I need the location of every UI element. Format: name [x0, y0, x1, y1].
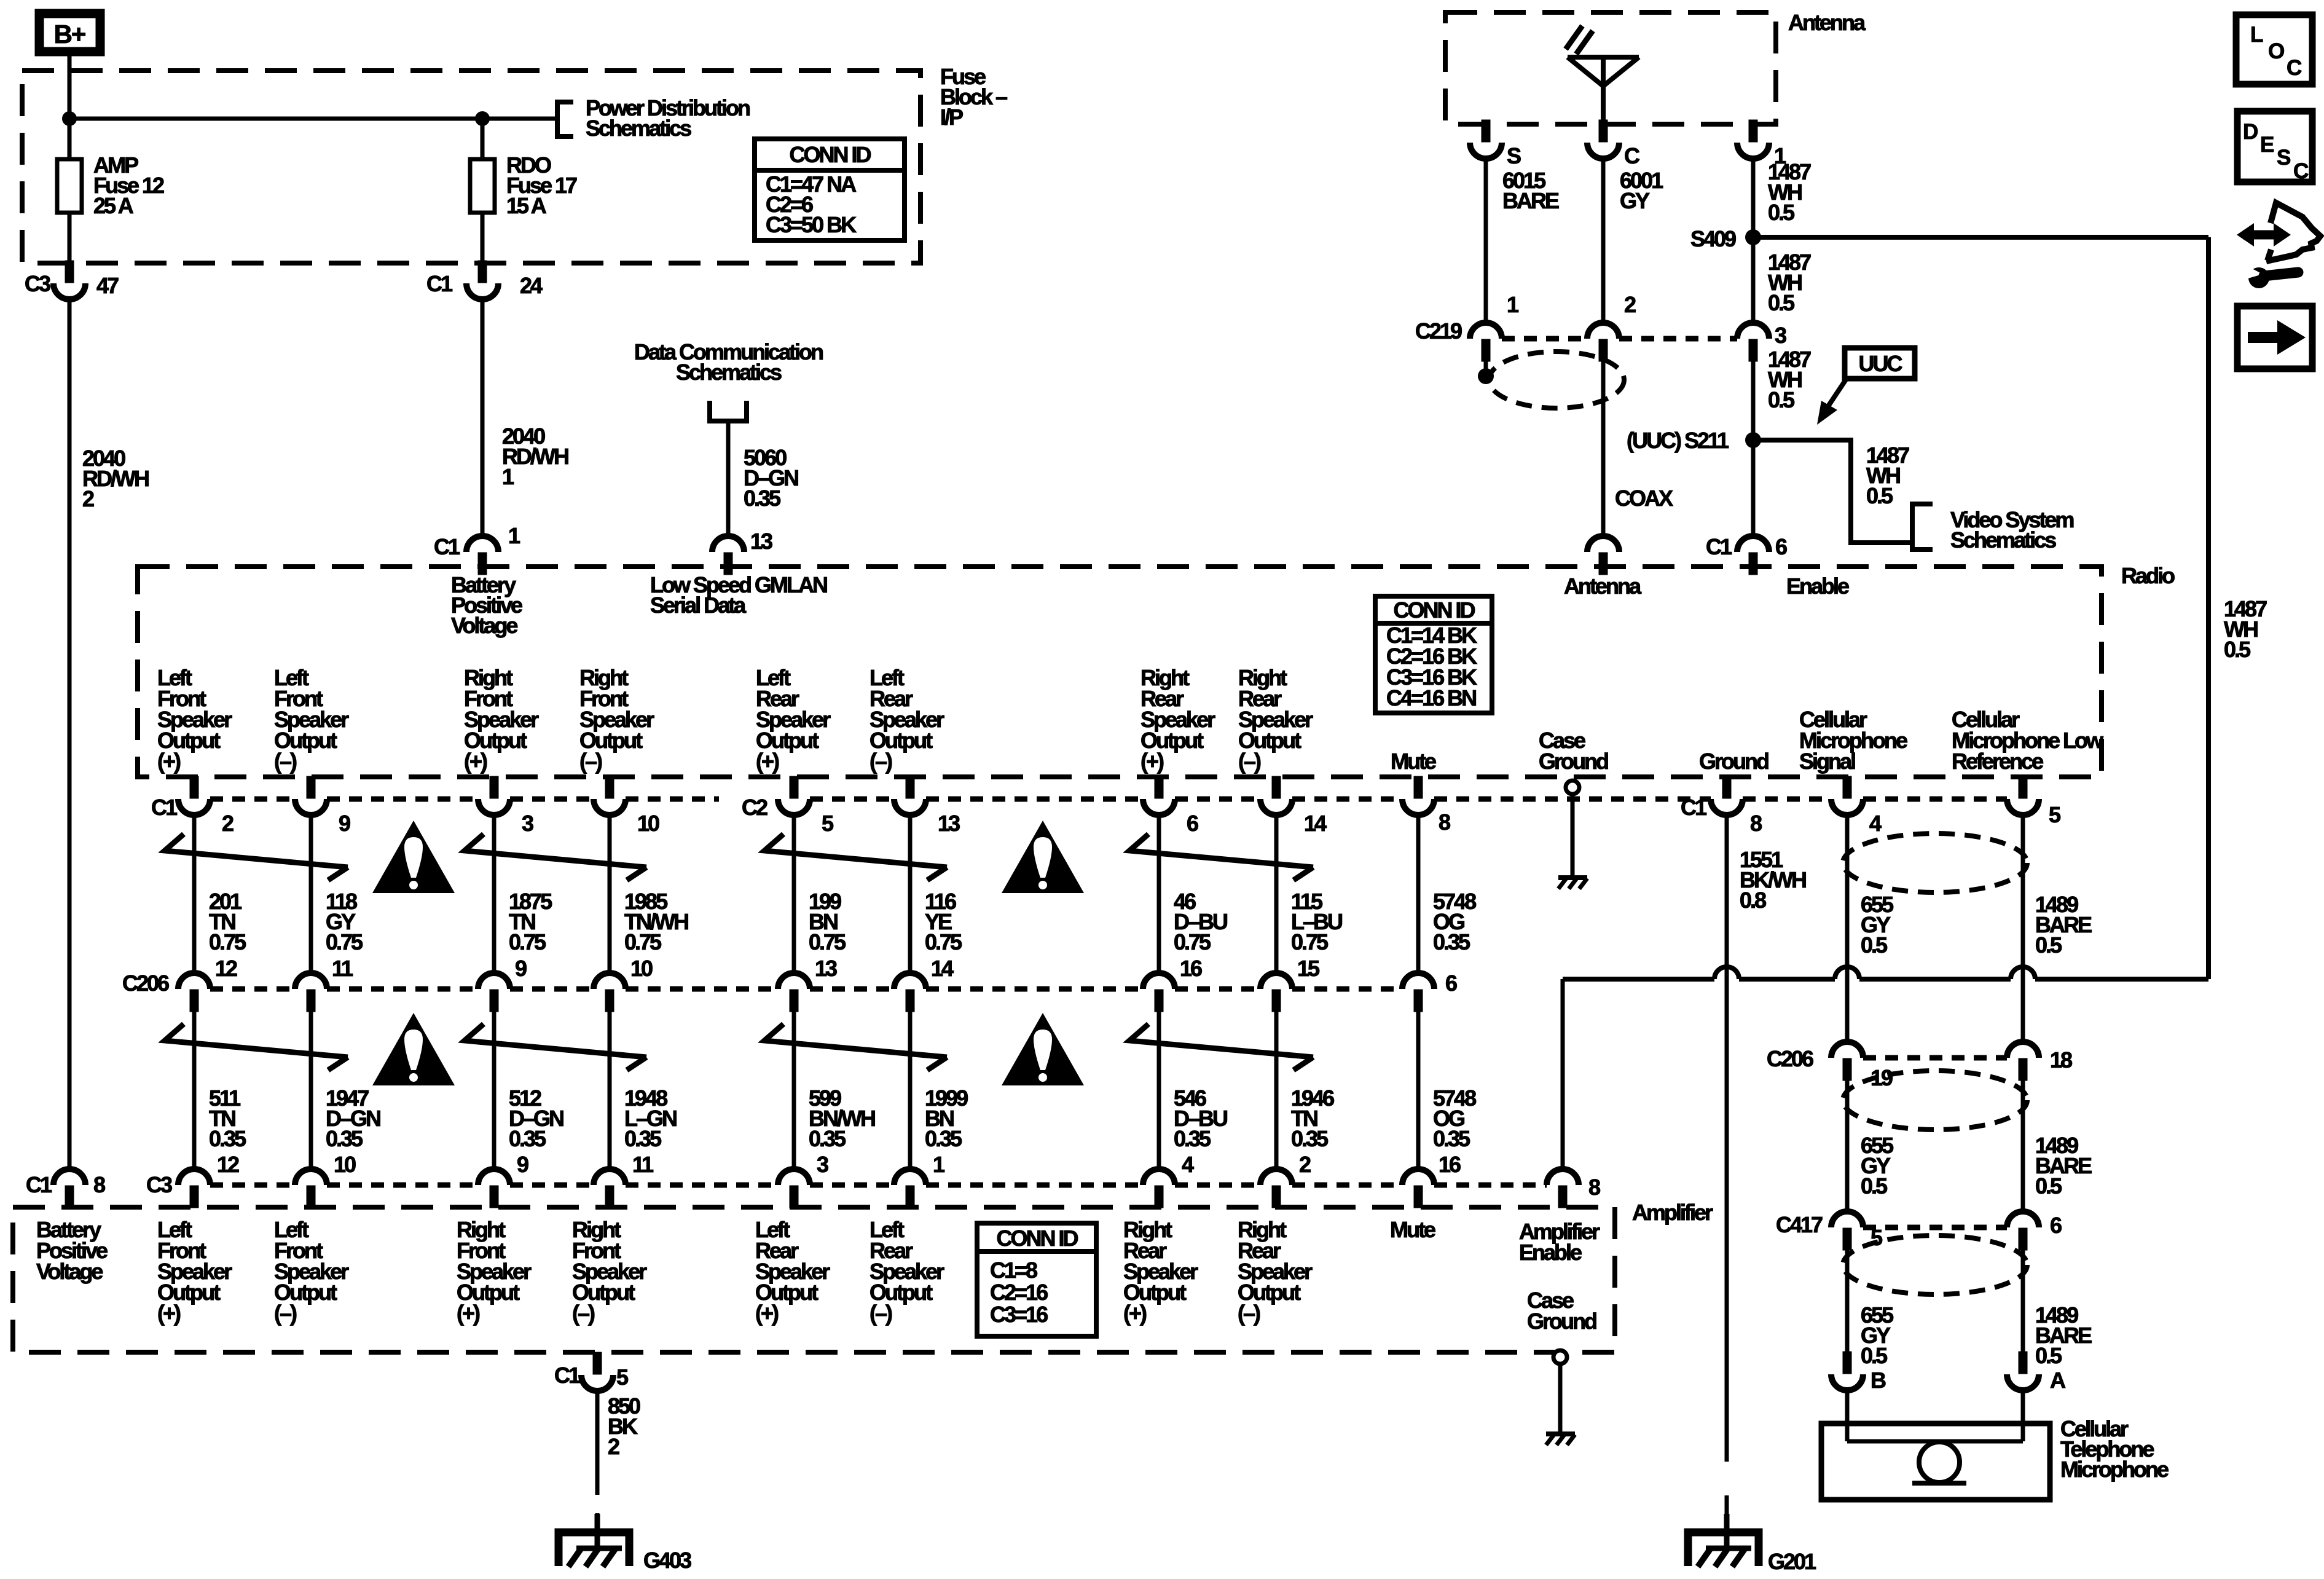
svg-text:C4=16 BN: C4=16 BN — [1386, 685, 1476, 711]
svg-text:0.35: 0.35 — [1433, 929, 1470, 955]
svg-text:(UUC) S211: (UUC) S211 — [1627, 428, 1729, 453]
svg-text:6: 6 — [2050, 1213, 2062, 1238]
svg-text:Signal: Signal — [1799, 749, 1855, 774]
svg-text:8: 8 — [1439, 809, 1450, 835]
svg-text:G403: G403 — [643, 1548, 691, 1573]
svg-text:13: 13 — [750, 529, 772, 554]
connector pin 19 — [1831, 1042, 1863, 1081]
svg-text:5: 5 — [822, 811, 834, 836]
amplifier enable wire — [1563, 967, 2208, 979]
svg-text:2: 2 — [222, 811, 234, 836]
UUC arrow — [1828, 379, 1847, 406]
fuse AMP Fuse 12 — [68, 213, 72, 264]
connector C3 pin 47 — [53, 261, 85, 299]
svg-text:1: 1 — [502, 464, 514, 489]
connector pin 3 — [478, 776, 510, 815]
connector pin 5 — [778, 776, 810, 815]
connector C1 pin 8 ground — [1711, 776, 1743, 815]
fuse RDO Fuse 17 — [481, 119, 485, 159]
svg-text:Antenna: Antenna — [1788, 10, 1866, 35]
warning triangle 3 — [372, 1013, 455, 1085]
connector pin 14 — [1260, 776, 1292, 815]
svg-text:GY: GY — [1620, 188, 1650, 213]
svg-text:C3=50 BK: C3=50 BK — [766, 212, 857, 237]
svg-text:25 A: 25 A — [93, 193, 134, 218]
svg-text:UUC: UUC — [1859, 351, 1903, 376]
svg-text:0.35: 0.35 — [809, 1126, 846, 1151]
svg-text:(+): (+) — [157, 749, 181, 774]
amplifier dashed box — [13, 1207, 1615, 1352]
radio case ground — [1566, 781, 1579, 794]
connector C206 pin 15 — [1260, 973, 1292, 1012]
svg-text:10: 10 — [630, 956, 653, 981]
svg-text:0.35: 0.35 — [326, 1126, 363, 1151]
svg-text:1: 1 — [933, 1152, 945, 1177]
connector pin 6 — [1143, 776, 1175, 815]
svg-text:4: 4 — [1182, 1152, 1194, 1177]
svg-text:COAX: COAX — [1615, 486, 1673, 511]
svg-text:B+: B+ — [54, 20, 85, 49]
wire 1487 WH 0.5 seg1 — [1751, 159, 1756, 323]
connector C206 pin 13 — [778, 973, 810, 1012]
wire 2040 RD/WH 2 — [68, 299, 72, 1169]
svg-text:(–): (–) — [1238, 749, 1261, 774]
wire 850 BK 2 — [595, 1391, 600, 1495]
connector C1 pin 8 amp — [53, 1169, 85, 1208]
svg-text:8: 8 — [1750, 811, 1762, 836]
connector C206 pin 14 — [894, 973, 926, 1012]
wire 6015 BARE — [1484, 159, 1488, 323]
svg-text:C: C — [2287, 56, 2302, 80]
svg-text:6: 6 — [1187, 811, 1198, 836]
svg-text:18: 18 — [2050, 1047, 2072, 1073]
radio dashed box — [138, 567, 2102, 777]
svg-text:S: S — [1507, 143, 1521, 168]
radio bottom connector row — [210, 797, 295, 802]
svg-text:S: S — [2277, 146, 2290, 170]
wire 46 D–BU — [1157, 815, 1161, 973]
svg-text:14: 14 — [931, 956, 954, 981]
svg-text:3: 3 — [817, 1152, 828, 1177]
svg-text:C3: C3 — [146, 1172, 172, 1197]
ground G201 — [1688, 1514, 1759, 1567]
svg-text:Radio: Radio — [2121, 563, 2175, 588]
svg-text:0.75: 0.75 — [509, 929, 546, 955]
svg-text:Reference: Reference — [1952, 749, 2043, 774]
svg-text:C2=16: C2=16 — [990, 1280, 1048, 1305]
svg-text:5: 5 — [2049, 802, 2061, 827]
svg-text:12: 12 — [217, 1152, 239, 1177]
svg-text:(–): (–) — [870, 749, 892, 774]
svg-text:9: 9 — [517, 1152, 528, 1177]
connector row C3 amplifier — [210, 1183, 295, 1188]
connector C1 pin 6 radio — [1737, 536, 1769, 575]
svg-text:0.75: 0.75 — [624, 929, 662, 955]
svg-text:(–): (–) — [274, 749, 297, 774]
amp case ground — [1553, 1350, 1567, 1364]
connector C1 pin 1 radio — [466, 536, 498, 575]
svg-text:(+): (+) — [1140, 749, 1164, 774]
connector C206 mute pin 6 — [1402, 973, 1434, 1012]
svg-text:10: 10 — [637, 811, 659, 836]
wire 5748 OG 0.35 mute2 — [1416, 1011, 1421, 1169]
svg-text:C1: C1 — [434, 534, 460, 559]
CONN ID table fuse block — [755, 139, 905, 170]
connector mute pin 16 — [1402, 1169, 1434, 1208]
splice S211 — [1745, 432, 1761, 448]
svg-text:0.5: 0.5 — [1861, 932, 1888, 958]
svg-text:Mute: Mute — [1391, 749, 1436, 774]
svg-text:13: 13 — [815, 956, 837, 981]
connector pin 5 c417 — [1831, 1211, 1863, 1250]
warning triangle 2 — [1002, 821, 1084, 893]
wire 5748 OG 0.35 mute — [1416, 815, 1421, 973]
wire 1947 D–GN — [309, 1011, 313, 1169]
svg-text:11: 11 — [332, 956, 353, 981]
wire 5060 D-GN 0.35 — [726, 421, 731, 538]
wire 115 L–BU — [1274, 815, 1279, 973]
svg-text:0.5: 0.5 — [1861, 1173, 1888, 1199]
wire 1999 BN — [908, 1011, 913, 1169]
DESC icon box — [2237, 111, 2312, 182]
connector amp enable pin 8 — [1547, 1169, 1579, 1208]
connector mute pin 8 — [1402, 776, 1434, 815]
svg-text:0.35: 0.35 — [1174, 1126, 1211, 1151]
connector C206 pin 9 — [478, 973, 510, 1012]
svg-text:(+): (+) — [756, 749, 779, 774]
cellular telephone microphone box — [1821, 1423, 2050, 1500]
shield ellipse 3 — [1843, 1235, 2027, 1294]
svg-text:0.5: 0.5 — [1866, 483, 1893, 508]
connector C3 pin 10 — [295, 1169, 327, 1208]
svg-text:8: 8 — [93, 1172, 105, 1197]
connector C3 pin 1 — [894, 1169, 926, 1208]
svg-text:9: 9 — [515, 956, 527, 981]
wire 599 BN/WH — [792, 1011, 796, 1169]
warning triangle 4 — [1002, 1013, 1084, 1085]
bus wire in fuse block — [69, 117, 557, 121]
svg-text:O: O — [2268, 39, 2284, 63]
svg-text:0.75: 0.75 — [209, 929, 246, 955]
svg-text:C1=8: C1=8 — [990, 1258, 1037, 1283]
twisted pair symbols row2 — [165, 1024, 348, 1057]
svg-text:Voltage: Voltage — [36, 1259, 103, 1284]
antenna dashed box — [1445, 12, 1776, 124]
svg-text:10: 10 — [334, 1152, 356, 1177]
svg-text:6: 6 — [1445, 971, 1457, 996]
svg-text:0.5: 0.5 — [1768, 387, 1795, 412]
svg-text:C1: C1 — [554, 1363, 581, 1388]
connector row C219 — [1502, 336, 1587, 342]
connector C1 pin 24 — [466, 261, 498, 299]
svg-text:0.35: 0.35 — [925, 1126, 962, 1151]
svg-text:16: 16 — [1439, 1152, 1461, 1177]
connector C3 pin 11 — [594, 1169, 626, 1208]
node at RDO fuse branch — [475, 111, 490, 126]
svg-text:C1: C1 — [26, 1172, 52, 1197]
connector pin 13 — [894, 776, 926, 815]
connector 1 — [1737, 120, 1769, 159]
wire 2040 RD/WH 1 — [481, 299, 485, 538]
shield ellipse 2 — [1843, 1071, 2027, 1130]
connector C1 pin 5 amp bottom — [581, 1352, 613, 1391]
svg-text:5: 5 — [616, 1364, 629, 1390]
svg-text:Schematics: Schematics — [1950, 527, 2056, 553]
svg-text:3: 3 — [1775, 323, 1786, 348]
svg-text:Antenna: Antenna — [1564, 573, 1642, 599]
wire 1948 L–GN — [608, 1011, 612, 1169]
wire 546 D–BU — [1157, 1011, 1161, 1169]
connector pin 2 — [178, 776, 210, 815]
svg-text:Voltage: Voltage — [451, 613, 517, 638]
svg-text:1: 1 — [1507, 292, 1519, 317]
connector pin 6 c417 — [2007, 1211, 2039, 1250]
wire 1875 TN — [492, 815, 497, 973]
svg-text:5: 5 — [1871, 1225, 1883, 1250]
svg-text:0.5: 0.5 — [1861, 1343, 1888, 1368]
svg-text:C206: C206 — [122, 971, 169, 996]
warning triangle 1 — [372, 821, 455, 893]
svg-text:(+): (+) — [1123, 1301, 1147, 1326]
connector C3 pin 9 — [478, 1169, 510, 1208]
connector S — [1470, 120, 1502, 159]
connector row C206 right — [1863, 1055, 2007, 1061]
data communication bracket — [710, 401, 747, 421]
svg-text:(+): (+) — [464, 749, 487, 774]
fuse block I/P dashed box — [22, 71, 921, 263]
node at AMP fuse branch — [62, 111, 77, 126]
svg-text:9: 9 — [339, 811, 350, 836]
svg-text:I/P: I/P — [940, 104, 963, 130]
svg-text:8: 8 — [1588, 1175, 1600, 1200]
connector C3 pin 12 — [178, 1169, 210, 1208]
svg-text:C: C — [2293, 159, 2309, 183]
svg-text:2: 2 — [1624, 292, 1636, 317]
svg-text:4: 4 — [1869, 811, 1882, 836]
connector pin B — [1831, 1352, 1863, 1390]
svg-text:(+): (+) — [755, 1301, 779, 1326]
ground G403 — [559, 1514, 629, 1567]
svg-text:1: 1 — [508, 523, 520, 548]
LOC icon box — [2236, 15, 2312, 84]
svg-text:(–): (–) — [579, 749, 602, 774]
svg-text:14: 14 — [1304, 811, 1327, 836]
svg-text:E: E — [2260, 133, 2274, 157]
connector pin 5 — [2007, 776, 2039, 815]
wire 512 D–GN — [492, 1011, 497, 1169]
svg-text:Amplifier: Amplifier — [1632, 1200, 1713, 1225]
svg-text:C3: C3 — [25, 271, 50, 296]
svg-text:2: 2 — [1299, 1152, 1311, 1177]
svg-text:15: 15 — [1297, 956, 1320, 981]
svg-text:0.35: 0.35 — [209, 1126, 246, 1151]
svg-text:Microphone: Microphone — [2060, 1457, 2169, 1482]
CONN ID table radio — [1375, 596, 1492, 623]
svg-text:(–): (–) — [1238, 1301, 1260, 1326]
svg-text:12: 12 — [215, 956, 237, 981]
coax shield ellipse — [1489, 352, 1624, 408]
wire 201 TN — [192, 815, 197, 973]
wire 511 TN — [192, 1011, 197, 1169]
connector C3 pin 3 — [778, 1169, 810, 1208]
wire S409 to right — [1753, 237, 2208, 979]
svg-text:15 A: 15 A — [506, 193, 547, 218]
svg-text:C417: C417 — [1776, 1212, 1823, 1237]
connector row C417 — [1863, 1225, 2007, 1231]
connector row C206 — [210, 986, 295, 992]
svg-text:0.5: 0.5 — [1768, 290, 1795, 315]
svg-text:(–): (–) — [572, 1301, 595, 1326]
svg-text:CONN ID: CONN ID — [1394, 597, 1475, 623]
antenna symbol — [1568, 57, 1639, 120]
twisted pair symbols row1 — [165, 834, 348, 867]
connector C3 pin 4 — [1143, 1169, 1175, 1208]
svg-text:3: 3 — [522, 811, 533, 836]
svg-text:0.5: 0.5 — [2224, 637, 2251, 662]
svg-text:0.5: 0.5 — [1768, 200, 1795, 225]
svg-text:C1: C1 — [1681, 795, 1707, 820]
svg-text:C: C — [1624, 143, 1640, 168]
svg-text:CONN ID: CONN ID — [997, 1226, 1078, 1251]
connector C206 pin 10 — [594, 973, 626, 1012]
svg-text:0.75: 0.75 — [809, 929, 846, 955]
svg-text:Ground: Ground — [1527, 1309, 1596, 1334]
svg-text:(–): (–) — [274, 1301, 297, 1326]
connector pin 13 radio — [712, 536, 744, 575]
video system bracket — [1912, 504, 1933, 549]
svg-text:BARE: BARE — [1502, 188, 1559, 213]
connector pin 18 — [2007, 1042, 2039, 1081]
shield ellipse 1 — [1843, 833, 2027, 892]
wire 1985 TN/WH — [608, 815, 612, 973]
svg-text:CONN ID: CONN ID — [790, 142, 871, 167]
svg-text:C1: C1 — [151, 795, 178, 820]
svg-text:D: D — [2243, 120, 2258, 144]
ground wire 1551 BK/WH 0.8 — [1725, 815, 1729, 1403]
coax wire — [1601, 360, 1606, 538]
microphone symbol — [1919, 1442, 1960, 1483]
svg-text:0.75: 0.75 — [326, 929, 363, 955]
svg-text:0.35: 0.35 — [744, 486, 781, 511]
UUC flag box — [1845, 348, 1915, 379]
svg-text:Enable: Enable — [1519, 1240, 1582, 1265]
svg-text:0.35: 0.35 — [624, 1126, 662, 1151]
svg-text:Ground: Ground — [1539, 749, 1608, 774]
svg-text:0.75: 0.75 — [1174, 929, 1211, 955]
svg-text:Schematics: Schematics — [676, 360, 782, 385]
svg-text:Enable: Enable — [1786, 573, 1849, 599]
svg-text:C1: C1 — [1706, 534, 1732, 559]
connector C3 pin 2 — [1260, 1169, 1292, 1208]
wire B+ to bus — [68, 56, 72, 159]
svg-text:0.35: 0.35 — [509, 1126, 546, 1151]
svg-text:C206: C206 — [1767, 1046, 1813, 1071]
svg-text:Serial Data: Serial Data — [650, 593, 747, 618]
svg-text:0.5: 0.5 — [2035, 932, 2062, 958]
CONN ID table amplifier — [977, 1223, 1096, 1251]
svg-text:Mute: Mute — [1390, 1217, 1435, 1242]
cellular microphone signal wire 655 GY 0.5 — [1845, 815, 1850, 1042]
svg-text:0.35: 0.35 — [1433, 1126, 1470, 1151]
wire 1946 TN — [1274, 1011, 1279, 1169]
connector pin A — [2007, 1352, 2039, 1390]
svg-text:2: 2 — [608, 1434, 619, 1459]
svg-text:13: 13 — [938, 811, 960, 836]
B+ battery feed symbol — [35, 9, 104, 56]
svg-text:11: 11 — [632, 1152, 654, 1177]
next arrow icon box — [2237, 306, 2312, 369]
svg-text:C1: C1 — [426, 271, 453, 296]
connector antenna radio — [1587, 536, 1619, 575]
svg-text:0.5: 0.5 — [2035, 1343, 2062, 1368]
svg-text:A: A — [2050, 1368, 2066, 1393]
svg-text:24: 24 — [520, 273, 543, 298]
svg-text:0.8: 0.8 — [1740, 888, 1766, 913]
svg-text:S409: S409 — [1690, 226, 1736, 251]
wrench and arrows icon — [2237, 203, 2320, 288]
wire S211 to video system — [1753, 440, 1912, 543]
svg-text:6: 6 — [1775, 534, 1787, 559]
connector pin 4 — [1831, 776, 1863, 815]
connector pin 9 — [295, 776, 327, 815]
connector C206 pin 16 — [1143, 973, 1175, 1012]
splice S409 — [1745, 229, 1761, 245]
svg-text:2: 2 — [82, 486, 94, 511]
connector C206 pin 11 — [295, 973, 327, 1012]
connector C206 pin 12 — [178, 973, 210, 1012]
svg-text:(+): (+) — [457, 1301, 480, 1326]
svg-text:G201: G201 — [1768, 1549, 1816, 1574]
wire 6001 GY — [1601, 159, 1606, 323]
svg-text:0.75: 0.75 — [1291, 929, 1329, 955]
svg-text:0.5: 0.5 — [2035, 1173, 2062, 1199]
svg-text:L: L — [2250, 23, 2263, 47]
wire 199 BN — [792, 815, 796, 973]
svg-text:16: 16 — [1180, 956, 1202, 981]
wire 1487 WH 0.5 seg3 — [1751, 360, 1756, 538]
connector pin 10 — [594, 776, 626, 815]
svg-text:C2: C2 — [742, 795, 767, 820]
svg-text:B: B — [1871, 1368, 1886, 1393]
svg-text:(–): (–) — [870, 1301, 892, 1326]
cellular low reference wire 1489 BARE 0.5 — [2021, 815, 2025, 1042]
svg-text:47: 47 — [96, 273, 119, 298]
svg-text:Ground: Ground — [1699, 749, 1769, 774]
svg-text:(+): (+) — [157, 1301, 181, 1326]
connector C — [1587, 120, 1619, 159]
power distribution bracket — [557, 102, 573, 136]
svg-text:0.75: 0.75 — [925, 929, 962, 955]
svg-text:0.35: 0.35 — [1291, 1126, 1329, 1151]
svg-text:C3=16: C3=16 — [990, 1302, 1048, 1327]
svg-text:Schematics: Schematics — [586, 116, 691, 141]
coax drain wire end — [1484, 360, 1488, 369]
wire 118 GY — [309, 815, 313, 973]
svg-text:C219: C219 — [1415, 318, 1462, 344]
wire 116 YE — [908, 815, 913, 973]
